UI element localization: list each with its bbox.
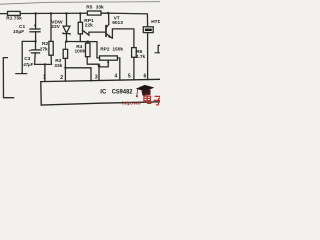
svg-text:R6: R6 (136, 49, 142, 55)
svg-text:HTD: HTD (151, 19, 160, 25)
svg-text:4: 4 (115, 74, 118, 80)
svg-text:150k: 150k (112, 47, 123, 53)
svg-text:22k: 22k (85, 23, 93, 29)
svg-text:47μF: 47μF (22, 62, 33, 67)
svg-text:RP2: RP2 (100, 47, 110, 53)
svg-text:22V: 22V (51, 24, 60, 30)
svg-text:100k: 100k (75, 49, 86, 55)
svg-text:R1: R1 (6, 15, 12, 21)
svg-text:6: 6 (144, 73, 147, 79)
svg-text:75k: 75k (14, 15, 22, 21)
svg-text:R5: R5 (86, 5, 92, 11)
svg-text:5: 5 (128, 74, 131, 80)
svg-text:1: 1 (43, 74, 46, 80)
svg-text:4.7k: 4.7k (136, 54, 146, 60)
svg-text:33k: 33k (96, 5, 104, 11)
svg-text:子: 子 (153, 95, 160, 107)
svg-text:http:⁄⁄ww: http:⁄⁄ww (122, 100, 141, 105)
svg-text:IC: IC (100, 90, 107, 96)
svg-text:10μF: 10μF (13, 29, 24, 35)
svg-text:33k: 33k (54, 63, 62, 69)
svg-text:2: 2 (60, 75, 63, 81)
svg-text:3: 3 (95, 75, 98, 81)
svg-text:R2: R2 (42, 41, 48, 47)
svg-text:9013: 9013 (112, 20, 123, 26)
svg-text:电: 电 (142, 93, 152, 106)
svg-text:CS9482: CS9482 (112, 90, 133, 96)
svg-text:27k: 27k (40, 47, 48, 53)
